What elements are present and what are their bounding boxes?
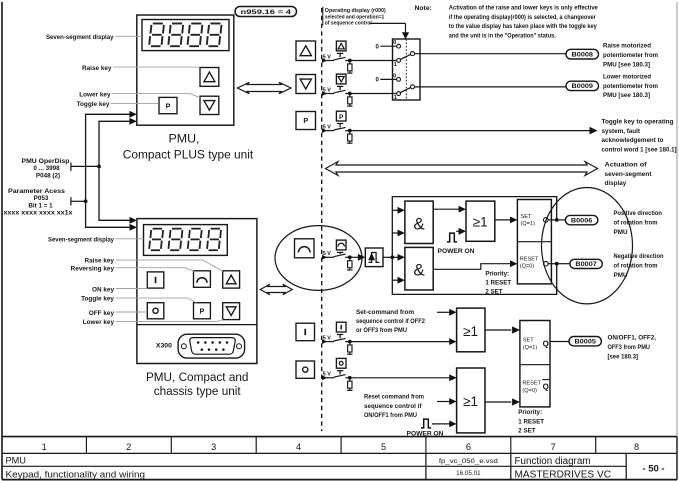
- connector X300 DB9: [178, 334, 245, 358]
- wire P053 tap: [71, 197, 88, 205]
- label raise motorized potentiometer: [603, 43, 658, 69]
- svg-text:fp_vc_050_e.vsd: fp_vc_050_e.vsd: [439, 458, 499, 465]
- arrow into box1 upper: [129, 111, 136, 118]
- svg-text:Lower key: Lower key: [79, 91, 111, 98]
- arrow into box2 lower: [130, 224, 137, 231]
- svg-text:Seven-segment display: Seven-segment display: [46, 34, 114, 41]
- leader line seven-segment display: [115, 35, 142, 37]
- label Lower key 2: [83, 319, 115, 326]
- svg-text:5 V: 5 V: [323, 87, 331, 93]
- svg-text:Lower motorized: Lower motorized: [603, 74, 651, 81]
- svg-text:Priority:: Priority:: [485, 271, 509, 278]
- reversing key button: [194, 271, 211, 288]
- wire AND2 to RESET: [433, 260, 517, 269]
- svg-text:PMU [see 180.3]: PMU [see 180.3]: [603, 92, 650, 99]
- PMU Compact/chassis unit outline: [137, 219, 257, 364]
- svg-text:chassis type unit: chassis type unit: [154, 384, 242, 398]
- label positive direction: [614, 210, 663, 236]
- svg-text:potentiometer from: potentiometer from: [603, 83, 658, 90]
- leader line lower key 2: [116, 320, 223, 322]
- note activation text: [415, 5, 599, 40]
- label Parameter Access P053: [4, 188, 74, 217]
- svg-text:Operating display (r000): Operating display (r000): [325, 8, 386, 14]
- svg-text:(Q=0): (Q=0): [522, 388, 537, 394]
- lower key button (chassis): [223, 303, 240, 320]
- leader line raise key 2: [116, 260, 223, 271]
- label Raise key: [82, 65, 112, 72]
- svg-text:RESET: RESET: [520, 257, 539, 263]
- svg-text:3: 3: [211, 442, 216, 452]
- svg-text:1 RESET: 1 RESET: [485, 280, 511, 287]
- ON key contact circuit: [322, 322, 449, 354]
- svg-text:Reversing key: Reversing key: [71, 265, 115, 272]
- changeover contact lower: [375, 73, 414, 101]
- wire to B0007: [557, 263, 570, 265]
- svg-text:B0007: B0007: [575, 261, 597, 268]
- svg-text:ON key: ON key: [92, 286, 114, 293]
- OFF key button O: [147, 303, 164, 319]
- svg-text:POWER ON: POWER ON: [407, 430, 445, 437]
- power-on pulse U3: [447, 228, 466, 242]
- label set-command: [356, 309, 425, 334]
- svg-text:5 V: 5 V: [323, 125, 331, 131]
- wire branch AND1 in1: [392, 207, 405, 214]
- callout n959.16 = 4: [235, 7, 297, 17]
- svg-text:2 SET: 2 SET: [485, 288, 502, 295]
- arrow OFF into OR gate: [449, 374, 456, 381]
- leader line toggle key: [111, 102, 159, 104]
- PMU Compact PLUS unit outline: [137, 15, 234, 125]
- svg-text:5 V: 5 V: [323, 54, 331, 60]
- svg-text:5 V: 5 V: [323, 336, 331, 342]
- note operating display selected: [323, 7, 386, 27]
- label POWER ON upper: [438, 248, 476, 255]
- svg-text:PMU [see 180.3]: PMU [see 180.3]: [603, 61, 650, 68]
- caption PMU Compact PLUS: [123, 132, 254, 162]
- wire SET out: [548, 219, 557, 221]
- double arrow box1-keys: [237, 82, 291, 93]
- svg-text:ON/OFF1, OFF2,: ON/OFF1, OFF2,: [608, 334, 657, 341]
- svg-text:P: P: [166, 101, 171, 110]
- arrow into edge detector: [358, 254, 365, 261]
- junction feedback bottom: [555, 262, 559, 266]
- wire AND1 to OR1: [433, 206, 466, 213]
- title block: [2, 437, 677, 481]
- svg-text:Toggle key: Toggle key: [81, 296, 114, 303]
- svg-text:≥1: ≥1: [473, 214, 488, 229]
- svg-text:of sequence control: of sequence control: [325, 21, 372, 27]
- leader line OFF key: [116, 311, 148, 313]
- svg-text:potentiometer from: potentiometer from: [603, 52, 658, 59]
- toggle key button P (Compact PLUS): [159, 97, 177, 113]
- svg-text:≥1: ≥1: [463, 394, 478, 409]
- changeover switch control line: [405, 39, 407, 100]
- edge detector U5: [365, 248, 383, 267]
- svg-text:Set-command from: Set-command from: [356, 309, 414, 316]
- svg-text:7: 7: [551, 442, 556, 452]
- border frame left edge: [1, 2, 3, 480]
- label reset command: [364, 394, 424, 419]
- svg-text:8: 8: [634, 442, 639, 452]
- AND gate U2: [405, 247, 433, 290]
- lower key symbol: [296, 75, 316, 94]
- svg-text:xxxx xxxx xxxx xx1x: xxxx xxxx xxxx xx1x: [4, 210, 74, 217]
- changeover contact raise: [375, 40, 414, 68]
- svg-text:OFF key: OFF key: [89, 310, 115, 317]
- label ON key: [92, 286, 114, 293]
- seven-segment display (chassis): [144, 225, 228, 256]
- svg-text:Note:: Note:: [415, 5, 432, 12]
- svg-text:system, fault: system, fault: [602, 128, 641, 135]
- svg-text:n959.16 = 4: n959.16 = 4: [241, 9, 292, 16]
- raise key button (chassis): [223, 271, 240, 288]
- svg-text:Toggle key to operating: Toggle key to operating: [602, 119, 674, 126]
- svg-text:MASTERDRIVES VC: MASTERDRIVES VC: [515, 470, 612, 481]
- svg-text:B0006: B0006: [571, 217, 593, 224]
- wire feedback loop: [392, 197, 556, 295]
- svg-text:5 V: 5 V: [323, 372, 331, 378]
- svg-text:0: 0: [393, 40, 396, 46]
- OR gate U3: [466, 201, 495, 241]
- raise key button (Compact PLUS): [200, 68, 219, 87]
- svg-text:5: 5: [381, 442, 386, 452]
- dashed separator line: [321, 8, 323, 431]
- label Seven-segment display 2: [48, 237, 114, 244]
- label priority lower: [518, 409, 544, 434]
- svg-text:SET: SET: [523, 338, 534, 344]
- wire OR1 to SET: [495, 217, 518, 224]
- svg-text:Q: Q: [543, 382, 549, 391]
- arrow into box1 lower: [129, 118, 136, 125]
- label OFF key: [89, 310, 115, 317]
- svg-text:PMU: PMU: [6, 456, 26, 466]
- leader line toggle key 2: [116, 298, 197, 303]
- wire RESET out: [548, 263, 557, 265]
- svg-text:Reset command from: Reset command from: [364, 394, 424, 401]
- svg-text:5 V: 5 V: [323, 251, 331, 257]
- svg-text:P: P: [303, 116, 308, 125]
- svg-text:Seven-segment display: Seven-segment display: [48, 237, 114, 244]
- svg-text:≥1: ≥1: [463, 324, 478, 339]
- wire bus outer: [86, 114, 130, 227]
- label Seven-segment display: [46, 34, 114, 41]
- caption PMU chassis: [146, 370, 249, 398]
- OFF key contact circuit: [322, 358, 449, 390]
- svg-text:sequence control if: sequence control if: [364, 403, 422, 410]
- wire to B0006: [557, 219, 566, 221]
- svg-text:or OFF3 from PMU: or OFF3 from PMU: [356, 327, 407, 334]
- svg-text:&: &: [413, 261, 425, 280]
- label toggle key to operating system: [602, 119, 677, 154]
- svg-text:RESET: RESET: [522, 381, 541, 387]
- keypad/connector divider: [137, 324, 257, 326]
- svg-text:of rotation from: of rotation from: [614, 263, 658, 270]
- wire bus inner: [99, 121, 129, 220]
- svg-text:POWER ON: POWER ON: [438, 248, 476, 255]
- power-on pulse U7: [421, 419, 457, 428]
- OR gate U7: [457, 368, 485, 433]
- AND gate U1: [405, 201, 433, 243]
- svg-text:(Q=1): (Q=1): [521, 221, 536, 227]
- svg-text:Function diagram: Function diagram: [515, 456, 591, 467]
- ON key symbol I: [296, 323, 315, 341]
- wire branch AND2 in2: [392, 277, 405, 284]
- border frame right edge: [676, 2, 678, 437]
- label Reversing key: [71, 265, 115, 272]
- svg-text:Negative direction: Negative direction: [614, 253, 664, 260]
- svg-text:&: &: [413, 214, 425, 233]
- label POWER ON lower: [407, 430, 445, 437]
- svg-text:PMU: PMU: [614, 229, 628, 236]
- raise key contact circuit: [322, 41, 397, 73]
- svg-text:Actuation of: Actuation of: [605, 162, 648, 169]
- svg-text:P048 (2): P048 (2): [36, 173, 60, 180]
- arrow into box2 upper: [130, 217, 137, 224]
- binector B0006: [565, 215, 597, 224]
- wire raise output: [415, 53, 566, 55]
- wire Q to B0005: [550, 341, 569, 343]
- svg-text:16.05.01: 16.05.01: [456, 470, 481, 477]
- svg-text:Raise motorized: Raise motorized: [603, 43, 651, 50]
- svg-text:(Q=1): (Q=1): [523, 345, 538, 351]
- label Toggle key 2: [81, 296, 114, 303]
- svg-text:Parameter Acess: Parameter Acess: [8, 188, 66, 195]
- svg-text:Bit 1 = 1: Bit 1 = 1: [28, 202, 53, 209]
- svg-text:Raise key: Raise key: [82, 65, 112, 72]
- binector B0007: [570, 259, 602, 268]
- svg-text:Compact PLUS type unit: Compact PLUS type unit: [123, 148, 254, 162]
- junction feedback top: [555, 218, 559, 222]
- svg-text:control word 1 [see 180.1]: control word 1 [see 180.1]: [602, 146, 677, 153]
- svg-text:display: display: [605, 180, 627, 187]
- toggle key arrow to operating system: [590, 127, 598, 135]
- ON key button I: [147, 272, 164, 288]
- svg-text:P053: P053: [34, 195, 49, 202]
- svg-text:PMU, Compact and: PMU, Compact and: [146, 370, 249, 384]
- leader line reversing key: [116, 268, 195, 272]
- label lower motorized potentiometer: [603, 74, 658, 100]
- toggle key button P (chassis): [194, 303, 211, 319]
- svg-text:to the value display has taken: to the value display has taken place wit…: [449, 23, 597, 30]
- svg-text:[see 180.3]: [see 180.3]: [608, 353, 639, 360]
- svg-text:- 50 -: - 50 -: [642, 463, 664, 474]
- svg-text:2 SET: 2 SET: [518, 427, 535, 434]
- leader line lower key: [112, 94, 200, 98]
- svg-text:and the unit is in the "Operat: and the unit is in the "Operation" statu…: [449, 32, 556, 39]
- svg-text:0: 0: [375, 44, 379, 50]
- svg-text:of rotation from: of rotation from: [614, 219, 658, 226]
- leader line raise key: [113, 66, 199, 68]
- wire OR2 to SET: [485, 326, 520, 333]
- arrow control into switch: [402, 32, 409, 39]
- svg-text:PMU,: PMU,: [169, 132, 200, 146]
- svg-text:1: 1: [394, 62, 398, 68]
- svg-text:sequence control if OFF2: sequence control if OFF2: [356, 318, 425, 325]
- svg-text:if the operating display(r000): if the operating display(r000) is select…: [449, 14, 596, 21]
- svg-text:B0005: B0005: [575, 339, 597, 346]
- double arrow box2-ellipse: [260, 284, 292, 295]
- label priority upper: [485, 271, 511, 296]
- wire edge to AND2 in1: [383, 254, 405, 261]
- actuation double arrow: [326, 162, 598, 176]
- OR gate U6: [457, 308, 485, 352]
- reversing key symbol: [295, 239, 315, 258]
- lower key contact circuit: [322, 74, 397, 106]
- label Lower key: [79, 91, 111, 98]
- svg-text:0 ... 3998: 0 ... 3998: [33, 165, 60, 172]
- label X300: [156, 343, 173, 349]
- svg-text:P: P: [339, 114, 344, 121]
- svg-text:1: 1: [42, 442, 47, 452]
- svg-text:Activation of the raise and lo: Activation of the raise and lower keys i…: [449, 5, 598, 12]
- svg-text:P: P: [200, 306, 205, 315]
- wire set-command arrow: [437, 309, 457, 316]
- svg-text:seven-segment: seven-segment: [605, 171, 653, 178]
- OFF key symbol O: [296, 361, 315, 378]
- svg-text:B0008: B0008: [572, 51, 594, 58]
- svg-text:PMU OperDisp: PMU OperDisp: [22, 158, 70, 165]
- arrow ON into OR gate: [449, 338, 456, 345]
- svg-text:4: 4: [296, 442, 301, 452]
- svg-text:OFF3 from PMU: OFF3 from PMU: [608, 344, 651, 351]
- wire reset-command arrow: [437, 398, 457, 405]
- svg-text:ON/OFF1 from PMU: ON/OFF1 from PMU: [364, 412, 417, 419]
- svg-text:Raise key: Raise key: [85, 258, 115, 265]
- toggle key contact circuit: [322, 111, 590, 143]
- leader line ON key: [116, 288, 148, 290]
- svg-text:2: 2: [126, 442, 131, 452]
- svg-text:B0009: B0009: [572, 83, 594, 90]
- binector B0005: [569, 337, 601, 346]
- wire lower output: [415, 86, 566, 88]
- changeover switch box: [393, 39, 421, 100]
- wire branch AND1 in2: [392, 230, 405, 237]
- label actuation of seven-segment display: [605, 162, 653, 187]
- svg-text:Positive direction: Positive direction: [614, 210, 663, 217]
- label PMU OperDisp P048: [22, 158, 70, 180]
- seven-segment display (Compact PLUS): [142, 20, 229, 51]
- label negative direction: [614, 253, 664, 279]
- svg-text:X300: X300: [156, 343, 173, 349]
- RS flip-flop U8: [520, 321, 550, 407]
- RS flip-flop U4: [517, 200, 551, 284]
- reversing key contact circuit: [322, 240, 360, 270]
- svg-text:0: 0: [393, 73, 396, 79]
- svg-text:selected and operation=1: selected and operation=1: [325, 14, 385, 20]
- leader line display 2: [116, 238, 144, 240]
- label Raise key 2: [85, 258, 115, 265]
- svg-text:Keypad, functionality and wiri: Keypad, functionality and wiring: [6, 469, 146, 480]
- svg-text:0: 0: [375, 78, 379, 84]
- wire OR3 to RESET: [485, 398, 520, 405]
- svg-text:Priority:: Priority:: [518, 409, 542, 416]
- svg-text:Toggle key: Toggle key: [77, 101, 110, 108]
- wire control to changeover switch: [370, 23, 406, 32]
- wire P048 tap: [71, 163, 101, 171]
- svg-text:1 RESET: 1 RESET: [518, 418, 544, 425]
- svg-text:Lower key: Lower key: [83, 319, 115, 326]
- svg-text:6: 6: [466, 442, 471, 452]
- svg-text:acknowledgement to: acknowledgement to: [602, 137, 664, 144]
- magnifier ellipse right: [542, 188, 633, 304]
- raise key symbol: [296, 41, 316, 61]
- binector B0009: [566, 81, 599, 90]
- svg-text:Q: Q: [543, 339, 549, 348]
- svg-text:(Q=0): (Q=0): [520, 264, 535, 270]
- lower key button (Compact PLUS): [200, 96, 219, 114]
- binector B0008: [566, 49, 599, 59]
- label on-off from PMU: [608, 334, 657, 360]
- magnifier ellipse reversing key: [275, 226, 362, 291]
- label Toggle key: [77, 101, 110, 108]
- svg-text:SET: SET: [521, 214, 532, 220]
- toggle key symbol P: [296, 112, 316, 130]
